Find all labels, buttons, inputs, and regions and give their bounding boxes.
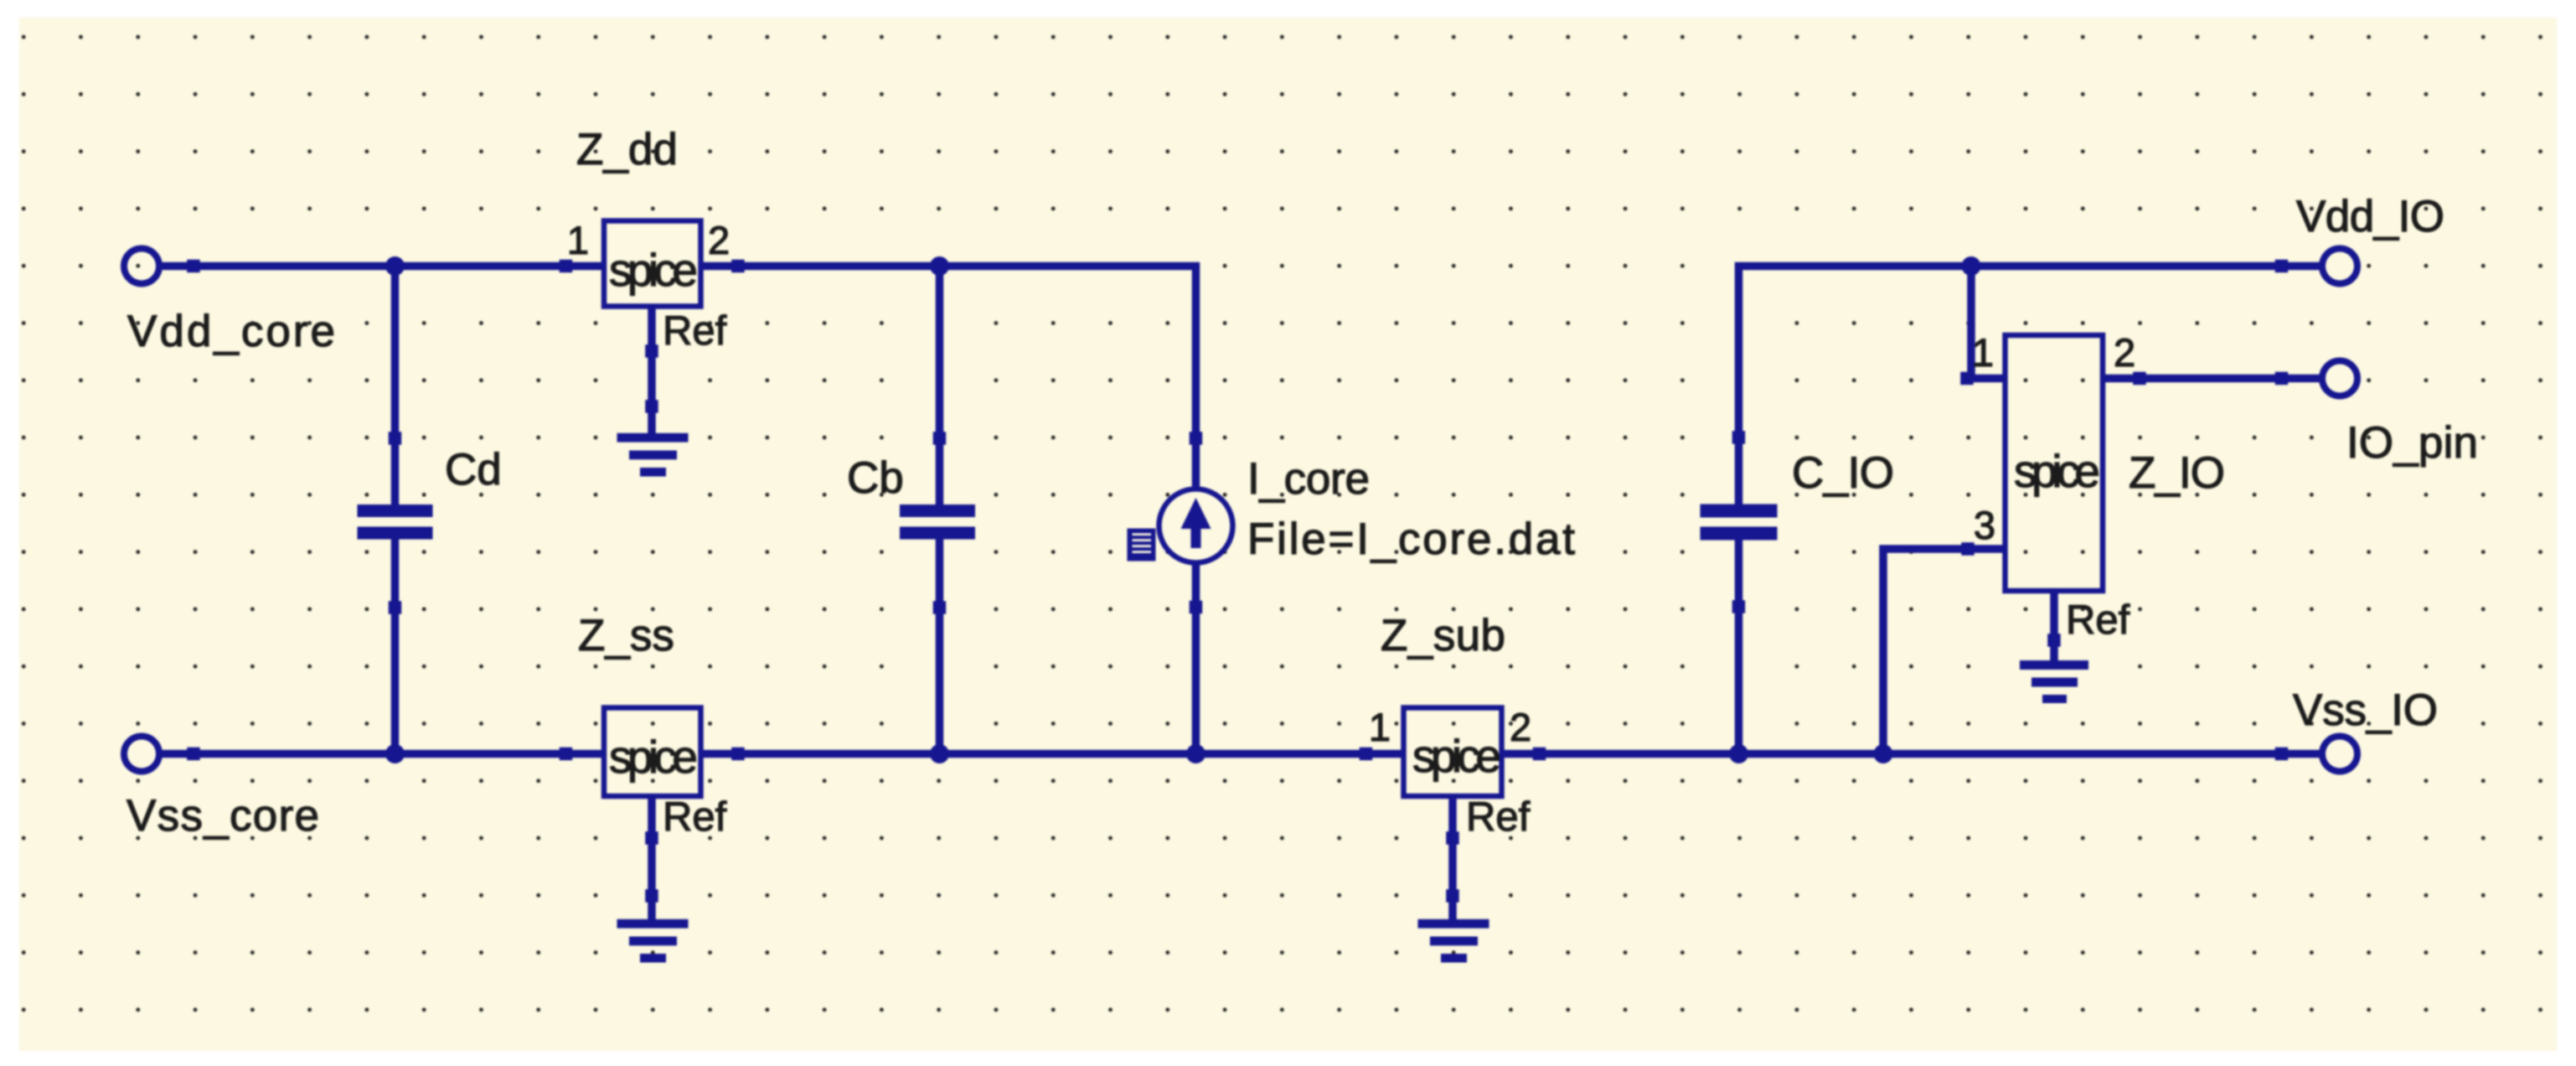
- svg-text:Ref: Ref: [1466, 794, 1531, 840]
- svg-text:Vss_IO: Vss_IO: [2293, 686, 2438, 735]
- svg-text:Z_IO: Z_IO: [2129, 448, 2225, 498]
- svg-text:Z_sub: Z_sub: [1381, 611, 1505, 660]
- svg-text:Cd: Cd: [445, 445, 502, 494]
- svg-text:spice: spice: [609, 244, 698, 296]
- svg-text:2: 2: [1510, 705, 1531, 749]
- svg-text:Ref: Ref: [2066, 598, 2130, 643]
- svg-text:spice: spice: [609, 731, 698, 783]
- svg-text:IO_pin: IO_pin: [2346, 418, 2478, 468]
- svg-text:3: 3: [1974, 503, 1995, 547]
- svg-text:2: 2: [2114, 330, 2135, 375]
- svg-text:spice: spice: [1412, 730, 1501, 782]
- svg-text:1: 1: [1972, 330, 1994, 375]
- svg-text:1: 1: [1369, 705, 1391, 749]
- svg-text:Cb: Cb: [847, 453, 904, 503]
- svg-text:Vdd_IO: Vdd_IO: [2296, 192, 2444, 241]
- svg-text:Z_dd: Z_dd: [576, 125, 678, 174]
- svg-text:Ref: Ref: [663, 308, 727, 354]
- svg-text:C_IO: C_IO: [1792, 448, 1894, 498]
- svg-text:1: 1: [567, 218, 589, 262]
- svg-text:I_core: I_core: [1247, 454, 1370, 504]
- svg-text:Ref: Ref: [663, 794, 727, 840]
- svg-text:spice: spice: [2014, 445, 2100, 497]
- svg-text:File=I_core.dat: File=I_core.dat: [1247, 515, 1575, 564]
- svg-text:2: 2: [708, 218, 730, 262]
- svg-text:Z_ss: Z_ss: [578, 611, 674, 660]
- svg-text:Vss_core: Vss_core: [126, 791, 319, 841]
